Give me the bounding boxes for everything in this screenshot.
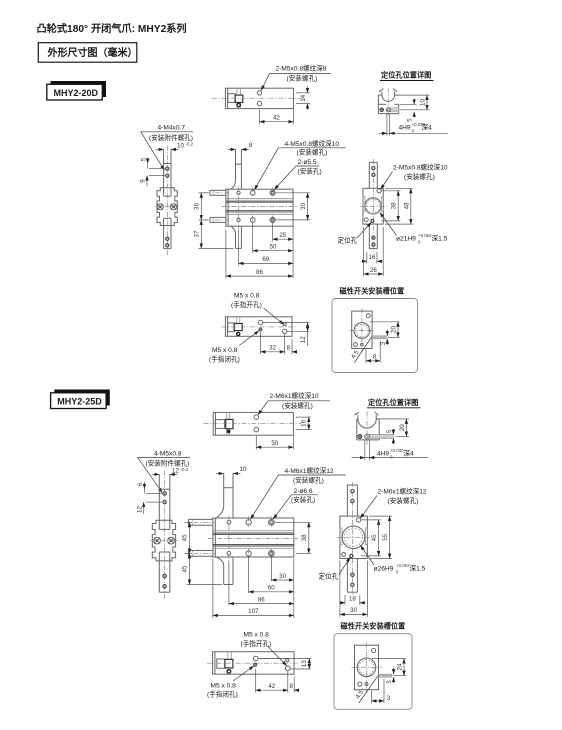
svg-text:4-M5x0.8螺纹深10: 4-M5x0.8螺纹深10 xyxy=(285,139,340,148)
label 2-M5x0.8 screw top view xyxy=(276,64,327,83)
side view rod top holes 20D xyxy=(372,167,375,177)
svg-text:2-ø5.5: 2-ø5.5 xyxy=(298,159,317,166)
front view holes top row 25D xyxy=(227,519,274,525)
front view body 20D xyxy=(226,189,293,226)
switch box body 25D xyxy=(355,645,379,690)
side view body 20D xyxy=(363,188,383,224)
dim 20 switch box 20D xyxy=(370,322,400,338)
svg-text:32: 32 xyxy=(269,345,276,352)
dim 10 finger rod 20D xyxy=(156,142,194,150)
svg-text:M5 x 0.8: M5 x 0.8 xyxy=(234,293,260,300)
dim 14 top view xyxy=(296,87,310,110)
svg-text:9: 9 xyxy=(140,179,147,183)
front view left protrusion top 20D xyxy=(210,190,226,195)
switch box frame 20D xyxy=(332,299,418,373)
dim 6 finger 25D xyxy=(137,482,162,494)
svg-text:(安装螺孔): (安装螺孔) xyxy=(293,476,324,485)
finger mid centerline 20D xyxy=(156,206,180,208)
svg-text:+0.030: +0.030 xyxy=(390,448,404,453)
label M5 close 20D xyxy=(209,347,240,363)
dim 16 top view 25D xyxy=(296,417,312,430)
finger body block 25D xyxy=(152,520,175,561)
svg-text:36: 36 xyxy=(194,202,201,209)
svg-text:2-M5x0.8螺纹深10: 2-M5x0.8螺纹深10 xyxy=(393,163,448,172)
front view top plate 20D xyxy=(231,149,242,189)
front view center dash line 25D xyxy=(208,538,298,540)
svg-text:定位孔: 定位孔 xyxy=(319,572,339,581)
dim 13 bottom view 25D xyxy=(259,658,311,669)
svg-text:14: 14 xyxy=(300,94,307,101)
dim 3 bottom switch box 25D xyxy=(372,679,391,703)
front view body 25D xyxy=(213,518,294,557)
dim 12 finger rod 25D xyxy=(152,467,189,475)
dim 45 side view 25D xyxy=(361,520,381,556)
dim 24 switch box 25D xyxy=(372,659,406,676)
positioning detail centerline 20D xyxy=(387,88,389,117)
switch box circle 25D xyxy=(357,658,376,677)
svg-text:+0.052: +0.052 xyxy=(418,233,432,238)
dim 10 positioning detail 20D xyxy=(398,95,430,110)
bottom view ports 25D xyxy=(253,656,290,670)
side view screw hole 25D xyxy=(356,518,360,522)
svg-text:8: 8 xyxy=(249,142,253,149)
dim 50 front view 20D xyxy=(253,244,293,251)
finger mid centerline 25D xyxy=(151,540,178,542)
finger leader 25D xyxy=(138,457,190,492)
finger leader 20D xyxy=(141,132,193,171)
dim 42 top view xyxy=(260,110,294,125)
label 4H9 depth 4 20D xyxy=(399,122,433,134)
side view body 25D xyxy=(340,516,368,558)
dim 36 front view 20D xyxy=(194,193,209,220)
svg-text:26: 26 xyxy=(370,267,377,274)
dim 69 front view 20D xyxy=(239,230,294,266)
svg-text:8: 8 xyxy=(289,683,293,690)
leader 2-M6x1 top view 25D xyxy=(258,401,330,415)
positioning hole detail drawing 20D xyxy=(378,89,398,114)
front view rails 20D xyxy=(226,199,293,215)
leader M5 open 20D xyxy=(264,308,284,325)
label o21H9 side view 20D xyxy=(396,233,448,245)
svg-text:深4: 深4 xyxy=(404,449,415,458)
front view left protrusion bottom 25D xyxy=(188,551,213,557)
side view rod top 25D xyxy=(347,485,357,516)
svg-text:37: 37 xyxy=(194,230,201,237)
svg-text:13: 13 xyxy=(301,660,308,667)
label 2-M6x1 screw top view 25D xyxy=(270,391,319,410)
svg-text:(安装螺孔): (安装螺孔) xyxy=(404,172,435,181)
svg-text:3: 3 xyxy=(387,695,391,702)
svg-text:ø26H9: ø26H9 xyxy=(374,565,394,572)
svg-text:69: 69 xyxy=(262,256,269,263)
side view rod bottom 20D xyxy=(369,224,377,249)
front view left protrusion bottom 20D xyxy=(210,217,226,222)
svg-text:8: 8 xyxy=(373,353,377,360)
label M5 open 20D xyxy=(231,293,262,309)
leader dingweikong 25D xyxy=(339,557,350,574)
front view holes bottom row 25D xyxy=(227,551,274,557)
label 4-M6x1 front view 25D xyxy=(285,466,334,485)
switch box holes 25D xyxy=(358,648,376,686)
finger attachment label 4-M5x0.8 25D xyxy=(146,451,190,468)
dim 3 switch box 20D xyxy=(380,330,387,346)
dim 18 side view 25D xyxy=(340,595,365,605)
dim 45 lower front view 25D xyxy=(182,553,222,584)
switch box holes 20D xyxy=(354,314,371,347)
dim 26 side view 20D xyxy=(364,227,384,276)
svg-text:86: 86 xyxy=(256,269,263,276)
front view hole columns centerlines 25D xyxy=(229,516,272,561)
positioning hole detail title 20D xyxy=(380,71,434,81)
leader 2-o5.5 front view 20D xyxy=(274,166,319,190)
svg-text:50: 50 xyxy=(271,440,278,447)
svg-text:凸轮式180° 开闭气爪: MHY2系列: 凸轮式180° 开闭气爪: MHY2系列 xyxy=(37,22,187,35)
dim 5 positioning detail 25D xyxy=(386,429,394,445)
side view rod bottom holes 25D xyxy=(351,573,354,586)
svg-text:定位孔: 定位孔 xyxy=(338,236,358,245)
dim 10 front view 25D xyxy=(216,466,247,473)
top view mounting holes 2-M6 25D xyxy=(254,415,259,432)
svg-text:6: 6 xyxy=(137,482,144,486)
svg-text:2-M6x1螺纹深12: 2-M6x1螺纹深12 xyxy=(378,487,427,496)
side view bottom holes 20D xyxy=(364,218,374,222)
svg-text:ø21H9: ø21H9 xyxy=(396,236,416,243)
top view finger block dark 20D xyxy=(235,95,243,102)
leader o26H9 25D xyxy=(361,546,375,566)
bottom view ports 20D xyxy=(258,320,287,333)
protrusion bottom centerline 20D xyxy=(206,219,229,221)
top view mounting holes 2-M5 xyxy=(257,91,261,106)
svg-text:MHY2-25D: MHY2-25D xyxy=(57,397,102,407)
svg-text:30: 30 xyxy=(350,607,357,614)
svg-text:(安装螺孔): (安装螺孔) xyxy=(388,496,419,505)
dim 50 top view 25D xyxy=(256,436,293,450)
dim 3 switch box 25D xyxy=(386,668,393,684)
bottom view screw dot 20D xyxy=(237,332,240,335)
svg-text:(安装螺孔): (安装螺孔) xyxy=(297,148,328,157)
top view finger block dark 25D xyxy=(226,419,233,428)
svg-text:M5 x 0.8: M5 x 0.8 xyxy=(212,347,238,354)
svg-text:定位孔位置详图: 定位孔位置详图 xyxy=(367,398,418,407)
side view screw hole 20D xyxy=(377,189,381,193)
leader 4-M5 front view 20D xyxy=(255,148,347,190)
svg-text:3: 3 xyxy=(380,341,387,345)
finger rod holes 20D xyxy=(166,167,169,177)
MHY2-25D label box xyxy=(51,390,110,409)
svg-text:(手指闭孔): (手指闭孔) xyxy=(207,690,238,699)
svg-text:45: 45 xyxy=(182,565,189,572)
switch slot leader 25D xyxy=(359,675,379,703)
top view screw ring xyxy=(237,103,240,106)
bottom view centerline 25D xyxy=(207,662,298,664)
svg-text:(安装孔): (安装孔) xyxy=(298,167,322,176)
svg-text:4-M4x0.7: 4-M4x0.7 xyxy=(158,125,186,132)
label 4-M5x0.8 front view 20D xyxy=(285,139,340,157)
side view rod top holes 25D xyxy=(351,490,354,503)
svg-text:42: 42 xyxy=(273,115,280,122)
label 4H9 depth 4 25D xyxy=(377,448,414,460)
dim 20 positioning detail 25D xyxy=(377,419,410,437)
side view bottom holes 25D xyxy=(342,553,353,558)
finger centerline 20D xyxy=(166,146,168,256)
positioning detail pin hole 20D xyxy=(380,108,390,112)
side view rod bottom holes 20D xyxy=(372,236,375,246)
label 2-o6.6 front view 25D xyxy=(291,488,315,504)
switch box centerlines 25D xyxy=(352,643,382,693)
svg-text:(安装螺孔): (安装螺孔) xyxy=(282,401,313,410)
svg-text:16: 16 xyxy=(369,254,376,261)
positioning detail pin hole 25D xyxy=(358,434,370,439)
dim 107 front view 25D xyxy=(213,559,294,618)
top view body MHY2-25D xyxy=(213,412,293,435)
svg-text:M5 x 0.8: M5 x 0.8 xyxy=(244,632,270,639)
svg-text:2-M5x0.8螺纹深8: 2-M5x0.8螺纹深8 xyxy=(276,64,327,73)
leader dingweikong 20D xyxy=(357,223,372,239)
dim 5 positioning detail 20D xyxy=(400,99,417,122)
svg-text:磁性开关安装槽位置: 磁性开关安装槽位置 xyxy=(339,287,405,296)
front view bottom plate 20D xyxy=(231,226,242,248)
svg-text:10: 10 xyxy=(420,99,427,106)
positioning detail gray slot 20D xyxy=(389,108,399,112)
dim 30 front view 20D xyxy=(276,193,310,220)
dim 8 bottom view 20D xyxy=(287,339,297,354)
dim 12 finger left 25D xyxy=(136,502,162,514)
finger centerline 25D xyxy=(164,471,166,600)
dim 9 finger 20D xyxy=(140,176,165,187)
svg-text:外形尺寸图（毫米）: 外形尺寸图（毫米） xyxy=(47,46,138,59)
svg-text:20: 20 xyxy=(399,424,406,431)
svg-text:18: 18 xyxy=(349,596,356,603)
svg-text:25: 25 xyxy=(279,232,286,239)
switch slot leader 20D xyxy=(355,337,372,363)
side view rod top 20D xyxy=(369,162,377,188)
svg-text:12: 12 xyxy=(172,467,179,474)
svg-text:8: 8 xyxy=(287,345,291,352)
finger rod lower 25D xyxy=(159,561,170,592)
switch box circle 20D xyxy=(354,323,370,339)
svg-text:24: 24 xyxy=(397,663,404,670)
svg-text:2-M6x1螺纹深10: 2-M6x1螺纹深10 xyxy=(270,391,319,400)
dim 30 side view 25D xyxy=(340,561,368,617)
front view center dash line 20D xyxy=(222,206,297,208)
positioning hole detail title 25D xyxy=(367,398,421,408)
svg-text:(手指开孔): (手指开孔) xyxy=(241,639,272,648)
svg-text:60: 60 xyxy=(268,585,275,592)
dim 55 side view 25D xyxy=(369,516,392,558)
leader 2-M6 side view 25D xyxy=(360,496,377,519)
bottom view groove edge 25D xyxy=(258,658,286,660)
svg-text:30: 30 xyxy=(279,573,286,580)
finger rod upper 25D xyxy=(159,474,170,520)
svg-text:42: 42 xyxy=(268,683,275,690)
dim 32 bottom view 20D xyxy=(261,332,285,354)
dim 48 side view 20D xyxy=(385,188,413,224)
bottom view body 20D xyxy=(225,317,292,337)
leader 2-o6.6 front view 25D xyxy=(273,495,318,519)
positioning detail centerline 25D xyxy=(366,412,368,445)
finger rod lower holes 20D xyxy=(166,237,169,247)
svg-text:45: 45 xyxy=(182,534,189,541)
dim 4 hole width positioning detail 20D xyxy=(379,114,448,136)
svg-text:深4: 深4 xyxy=(422,123,433,132)
dim 8 bottom view 25D xyxy=(289,677,299,693)
dim 4 hole width positioning detail 25D xyxy=(352,440,429,461)
bottom view finger block dark 20D xyxy=(234,324,242,331)
switch box gray slot 25D xyxy=(379,674,392,677)
switch box frame 25D xyxy=(334,634,412,710)
dim 5 finger 20D xyxy=(140,157,165,168)
switch box gray slot 20D xyxy=(372,336,386,339)
svg-text:4H9: 4H9 xyxy=(399,125,411,132)
svg-text:3: 3 xyxy=(386,680,393,684)
dim 60 front view 25D xyxy=(249,559,294,619)
svg-text:4-M5x0.8: 4-M5x0.8 xyxy=(154,451,182,458)
front view holes bottom row 20D xyxy=(237,217,275,222)
leader M5 close 20D xyxy=(239,331,259,346)
label o26H9 side view 25D xyxy=(374,563,426,575)
dim 25 front view 20D xyxy=(253,223,293,279)
svg-text:-0.2: -0.2 xyxy=(181,467,189,472)
finger attachment label 4-M4x0.7 20D xyxy=(149,125,193,143)
dim 38 front view 25D xyxy=(275,522,311,553)
svg-text:(手指开孔): (手指开孔) xyxy=(231,300,262,309)
top view screw dot 25D xyxy=(227,430,231,434)
dim 86 front view 25D xyxy=(229,561,294,606)
leader 2-M5x0.8 top view xyxy=(261,74,331,91)
positioning detail gray slot 25D xyxy=(367,435,394,439)
finger rod upper 20D xyxy=(164,149,171,187)
bottom view body 25D xyxy=(213,652,294,675)
switch box centerlines 20D xyxy=(350,309,375,352)
front view holes top row 20D xyxy=(237,190,275,195)
front view hole columns centerlines 20D xyxy=(239,187,273,230)
dim 8 switch box 20D xyxy=(366,341,380,363)
dim 42 bottom view 25D xyxy=(256,669,288,693)
svg-text:45: 45 xyxy=(371,534,378,541)
side view centerlines 25D xyxy=(337,482,371,596)
protrusion top centerline 25D xyxy=(184,521,216,523)
svg-text:磁性开关安装槽位置: 磁性开关安装槽位置 xyxy=(340,621,406,630)
svg-text:-0.2: -0.2 xyxy=(186,142,194,147)
dim 38 side view 20D xyxy=(382,191,401,221)
svg-text:4H9: 4H9 xyxy=(377,451,389,458)
svg-text:10: 10 xyxy=(240,466,247,473)
front view rails 25D xyxy=(213,531,294,549)
svg-text:30: 30 xyxy=(300,202,307,209)
outline dimension box xyxy=(38,43,137,63)
protrusion top centerline 20D xyxy=(206,192,229,194)
svg-text:50: 50 xyxy=(269,244,276,251)
protrusion bottom centerline 25D xyxy=(184,552,216,554)
MHY2-20D label box xyxy=(47,81,106,100)
label 2-M6 side view 25D xyxy=(378,487,427,506)
finger body block 20D xyxy=(157,188,177,226)
dim 37 front view 20D xyxy=(194,220,234,249)
dim 86 front view 20D xyxy=(226,230,293,279)
bottom view finger block dark 25D xyxy=(225,659,233,668)
dim 30 front view 25D xyxy=(249,557,294,594)
svg-text:86: 86 xyxy=(258,596,265,603)
top view centerline xyxy=(212,97,303,99)
svg-text:12: 12 xyxy=(136,506,143,513)
label M5 open 25D xyxy=(241,632,272,648)
svg-text:48: 48 xyxy=(403,202,410,209)
dim 8 front view 20D xyxy=(228,142,253,149)
svg-text:10: 10 xyxy=(177,143,184,150)
svg-text:5: 5 xyxy=(386,429,393,433)
svg-text:12: 12 xyxy=(300,336,307,343)
svg-text:深1.5: 深1.5 xyxy=(432,234,448,243)
svg-text:MHY2-20D: MHY2-20D xyxy=(54,88,99,98)
positioning hole detail drawing 25D xyxy=(355,412,380,440)
svg-text:+0.052: +0.052 xyxy=(396,563,410,568)
dim 12 bottom view 20D xyxy=(263,323,310,347)
svg-text:20: 20 xyxy=(391,326,398,333)
finger pivot circles 20D xyxy=(157,204,177,210)
top view centerline 25D xyxy=(204,422,302,424)
svg-text:55: 55 xyxy=(382,533,389,540)
finger pivot circles 25D xyxy=(154,537,175,544)
label 2-M5 side view 20D xyxy=(393,163,448,182)
dim 45 upper front view 25D xyxy=(182,522,192,553)
front view top plate 25D xyxy=(216,474,233,519)
svg-text:M5 x 0.8: M5 x 0.8 xyxy=(211,682,237,689)
svg-text:4-M6x1螺纹深12: 4-M6x1螺纹深12 xyxy=(285,466,334,475)
svg-text:深1.5: 深1.5 xyxy=(410,563,426,572)
leader 4-M6 front view 25D xyxy=(251,475,347,519)
front view bottom plate 25D xyxy=(216,557,233,585)
side view rod bottom 25D xyxy=(347,559,357,593)
svg-text:5: 5 xyxy=(140,157,147,161)
label M5 close 25D xyxy=(207,682,238,698)
svg-text:定位孔位置详图: 定位孔位置详图 xyxy=(380,71,431,80)
leader o21H9 20D xyxy=(380,213,397,236)
svg-text:38: 38 xyxy=(391,202,398,209)
finger rod lower 20D xyxy=(164,226,171,249)
svg-text:(安装孔): (安装孔) xyxy=(291,495,315,504)
finger rod lower holes 25D xyxy=(163,574,166,588)
side view centerlines 20D xyxy=(361,159,387,252)
switch box body 20D xyxy=(352,311,372,348)
label 2-o5.5 front view 20D xyxy=(298,159,322,176)
dim 16 side view 20D xyxy=(362,252,383,264)
side view big circle o21 20D xyxy=(365,198,381,214)
finger rod holes 25D xyxy=(163,492,166,504)
svg-text:(安装螺孔): (安装螺孔) xyxy=(287,74,318,83)
svg-text:16: 16 xyxy=(300,419,307,426)
bottom view screw dot 25D xyxy=(227,670,231,674)
side view big circle o26 25D xyxy=(342,526,365,549)
svg-text:38: 38 xyxy=(301,534,308,541)
leader M5 close 25D xyxy=(233,666,254,681)
svg-text:(手指闭孔): (手指闭孔) xyxy=(209,354,240,363)
front view left protrusion top 25D xyxy=(188,519,213,525)
leader 2-M5 side view 20D xyxy=(381,172,393,190)
top view body MHY2-20D xyxy=(225,88,293,108)
svg-text:2-ø6.6: 2-ø6.6 xyxy=(294,488,313,495)
svg-text:107: 107 xyxy=(248,608,259,615)
bottom view centerline 20D xyxy=(222,326,299,328)
leader M5 open 25D xyxy=(268,647,287,666)
